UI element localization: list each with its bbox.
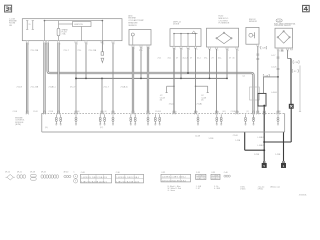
svg-text:3: 3: [149, 48, 150, 50]
svg-text:C-33: C-33: [196, 172, 200, 174]
svg-text:4: 4: [77, 44, 78, 46]
svg-text:(ECM): (ECM): [15, 124, 21, 126]
svg-text:2 W/2x: 2 W/2x: [240, 189, 245, 191]
svg-text:IGNITION: IGNITION: [74, 24, 83, 26]
svg-text:C2-08-9: C2-08-9: [155, 111, 161, 113]
svg-text:J/C: J/C: [294, 71, 297, 73]
svg-text:2: 2: [46, 44, 47, 46]
svg-text:1-25B: 1-25B: [254, 154, 260, 156]
svg-text:(FC): (FC): [100, 127, 104, 129]
svg-text:JR306B0A: JR306B0A: [299, 194, 308, 197]
svg-text:4-1B L2 24-1 B-41 2B 1-4L B-2: 4-1B L2 24-1 B-41 2B 1-4L B-2 1: [81, 181, 107, 183]
svg-text:C2-08: C2-08: [195, 136, 200, 138]
svg-text:JB/04-x case: JB/04-x case: [270, 187, 280, 189]
svg-text:C-32: C-32: [161, 172, 165, 174]
svg-text:2T-L: 2T-L: [204, 58, 208, 60]
svg-text:C-35: C-35: [211, 172, 215, 174]
svg-text:2T-(L): 2T-(L): [169, 103, 174, 105]
svg-text:1: 1: [134, 48, 135, 50]
svg-text:(IG): (IG): [45, 127, 48, 129]
svg-text:3: 3: [60, 44, 61, 46]
svg-text:4-1B L2 2: 4-1B L2 2: [212, 178, 220, 180]
svg-text:0-1: 0-1: [243, 75, 246, 77]
svg-text:G : Green: G : Green: [168, 189, 175, 192]
svg-text:4T-L: 4T-L: [168, 58, 172, 60]
svg-text:C-32: C-32: [277, 21, 281, 23]
svg-text:3: 3: [279, 51, 280, 53]
svg-text:4-1B L2 24-1 B-41 2B 1-4L B-: 4-1B L2 24-1 B-41 2B 1-4L B-: [116, 181, 140, 183]
svg-text:C2-08: C2-08: [231, 111, 236, 113]
svg-text:41-L.2: 41-L.2: [183, 58, 188, 60]
svg-text:6: 6: [103, 44, 104, 46]
svg-text:C2-08: C2-08: [233, 135, 238, 137]
svg-text:4: 4: [238, 50, 239, 52]
svg-text:1-40 2B 41-L 2-4B 1L 24-B 4-1: 1-40 2B 41-L 2-4B 1L 24-B 4-1 B: [81, 177, 107, 179]
svg-text:C2B: C2B: [262, 48, 266, 50]
svg-text:0-1.7: 0-1.7: [271, 55, 275, 57]
svg-text:C-30: C-30: [116, 172, 120, 174]
svg-text:15: 15: [29, 24, 31, 26]
svg-text:2T-4.8: 2T-4.8: [17, 86, 22, 88]
svg-text:2T-L.25B: 2T-L.25B: [89, 50, 97, 52]
svg-text:L.50B-2: L.50B-2: [257, 137, 263, 139]
svg-text:C-08: C-08: [81, 172, 85, 174]
svg-text:3: 3: [189, 49, 190, 51]
svg-text:J/B: J/B: [9, 25, 13, 27]
svg-text:C1B: C1B: [294, 62, 298, 64]
svg-text:1-40 2B 41-L 2-4B 1L 24-B 4-: 1-40 2B 41-L 2-4B 1L 24-B 4-: [116, 177, 139, 179]
svg-text:4F-28: 4F-28: [30, 171, 35, 173]
svg-text:4-1B L2 24-1 B-41 2B 1-4L B-2: 4-1B L2 24-1 B-41 2B 1-4L B-2: [162, 180, 186, 182]
svg-text:L.4G-B: L.4G-B: [271, 92, 277, 94]
svg-text:4F-34: 4F-34: [41, 171, 46, 173]
svg-text:6 : GND: 6 : GND: [214, 188, 221, 190]
svg-text:C2-08: C2-08: [49, 111, 54, 113]
svg-text:2T-(B): 2T-(B): [197, 103, 203, 105]
svg-text:C2-08: C2-08: [33, 111, 38, 113]
svg-text:PRESSURE SENSOR: PRESSURE SENSOR: [274, 25, 292, 27]
svg-text:2T: 2T: [212, 58, 215, 60]
svg-text:2: 2: [218, 50, 219, 52]
svg-text:SENSOR: SENSOR: [249, 21, 258, 23]
svg-text:1-25B: 1-25B: [209, 138, 215, 140]
svg-text:2T-L.25B: 2T-L.25B: [31, 87, 39, 89]
svg-text:(6): (6): [105, 111, 108, 113]
svg-text:1: 1: [211, 50, 212, 52]
svg-text:2T: 2T: [176, 58, 179, 60]
svg-text:(41): (41): [223, 111, 226, 113]
svg-text:5: 5: [87, 44, 88, 46]
svg-text:1-25B: 1-25B: [235, 140, 241, 142]
svg-text:41: 41: [233, 58, 235, 60]
svg-text:2: 2: [283, 51, 284, 53]
svg-text:4F-21: 4F-21: [17, 171, 22, 173]
svg-text:7: 7: [114, 44, 115, 46]
svg-text:PL SENSOR: PL SENSOR: [219, 23, 230, 25]
svg-text:DIODE: DIODE: [173, 24, 180, 26]
svg-text:(D): (D): [279, 111, 282, 113]
svg-text:2T-L.7: 2T-L.7: [70, 87, 75, 89]
svg-text:L.50B-2: L.50B-2: [257, 145, 263, 147]
svg-text:2T-(B.4): 2T-(B.4): [121, 87, 128, 89]
svg-text:3: 3: [228, 50, 229, 52]
svg-text:C-40: C-40: [224, 172, 228, 174]
svg-text:1: 1: [289, 51, 290, 53]
svg-text:1-25B: 1-25B: [275, 154, 281, 156]
svg-text:4 F/3ce: 4 F/3ce: [258, 189, 264, 191]
svg-text:2T-1: 2T-1: [158, 58, 162, 60]
svg-text:4: 4: [197, 49, 198, 51]
svg-text:0-1.25: 0-1.25: [271, 67, 276, 69]
svg-text:SENSOR: SENSOR: [128, 25, 137, 27]
svg-text:C: C: [73, 171, 75, 173]
svg-text:2T-L: 2T-L: [139, 50, 143, 52]
svg-text:2T-L.25B: 2T-L.25B: [31, 50, 39, 52]
svg-text:(9): (9): [201, 100, 204, 102]
svg-text:2T: 2T: [190, 58, 193, 60]
svg-text:1: 1: [28, 44, 29, 46]
svg-text:4-1B L2 24: 4-1B L2 24: [197, 178, 206, 180]
svg-text:4F-15: 4F-15: [5, 171, 10, 173]
svg-text:41-1: 41-1: [197, 58, 201, 60]
svg-text:1: 1: [259, 47, 260, 49]
svg-text:2T-L.7: 2T-L.7: [64, 50, 69, 52]
svg-text:1-40 2B 41-L 2-4B 1L 24-B 4-1: 1-40 2B 41-L 2-4B 1L 24-B 4-1: [162, 177, 186, 179]
svg-text:2T-L.7: 2T-L.7: [104, 87, 109, 89]
svg-text:2T-L: 2T-L: [78, 50, 82, 52]
svg-text:4F-40: 4F-40: [64, 171, 69, 173]
svg-text:41-L: 41-L: [218, 58, 222, 60]
svg-text:1: 1: [175, 49, 176, 51]
svg-text:C2-08: C2-08: [13, 111, 18, 113]
svg-text:2: 2: [182, 49, 183, 51]
svg-text:2T-(B.L): 2T-(B.L): [49, 87, 56, 89]
svg-text:(C): (C): [247, 111, 250, 113]
svg-text:2 : ST: 2 : ST: [196, 188, 201, 190]
svg-text:(9): (9): [160, 100, 163, 102]
svg-text:(4): (4): [78, 111, 81, 113]
